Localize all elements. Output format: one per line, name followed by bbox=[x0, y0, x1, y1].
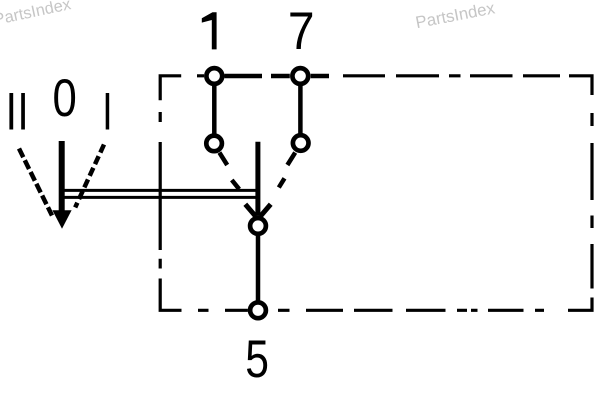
pivot contact right arm bbox=[260, 204, 271, 216]
lever arrowhead bbox=[52, 210, 71, 229]
lever position I dashed line bbox=[75, 145, 104, 208]
wire terminal 7 down to fixed contact bbox=[298, 76, 303, 134]
pivot contact circle bbox=[250, 218, 266, 234]
dashed throw line right: contact 7 to pivot bbox=[279, 153, 295, 188]
svg-text:5: 5 bbox=[245, 329, 269, 389]
label I bbox=[106, 93, 110, 130]
lever shaft (position 0) bbox=[59, 141, 65, 211]
wire pivot down to terminal 5 bbox=[256, 236, 261, 303]
enclosure outline: top edge dash-dot bbox=[160, 76, 592, 101]
pivot contact left arm bbox=[245, 204, 256, 216]
fixed contact under terminal 1 (throw II) bbox=[206, 136, 222, 152]
svg-text:0: 0 bbox=[53, 69, 77, 128]
label 1 bbox=[202, 12, 217, 49]
dashed throw line left: contact 1 to pivot bbox=[219, 153, 239, 190]
wire stubs on top edge beside terminals 1 and 7 bbox=[225, 74, 330, 79]
enclosure outline: right edge dash-dot bbox=[568, 113, 592, 310]
actuator bar upper line bbox=[62, 189, 258, 192]
actuator bar lower line bbox=[62, 196, 258, 199]
terminal 5 bbox=[250, 302, 266, 318]
pole wire (movable contact stem) bbox=[255, 142, 260, 216]
enclosure outline: left edge dash-dot bbox=[160, 112, 181, 310]
enclosure outline: bottom edge dash-dot bbox=[198, 309, 544, 312]
label II bbox=[9, 93, 25, 130]
lever position II dashed line bbox=[19, 149, 52, 216]
terminal 1 bbox=[206, 68, 222, 84]
fixed contact under terminal 7 (throw I) bbox=[293, 135, 309, 151]
wire terminal 1 down to fixed contact bbox=[212, 76, 217, 134]
svg-text:7: 7 bbox=[288, 1, 315, 61]
terminal 7 bbox=[292, 68, 308, 84]
